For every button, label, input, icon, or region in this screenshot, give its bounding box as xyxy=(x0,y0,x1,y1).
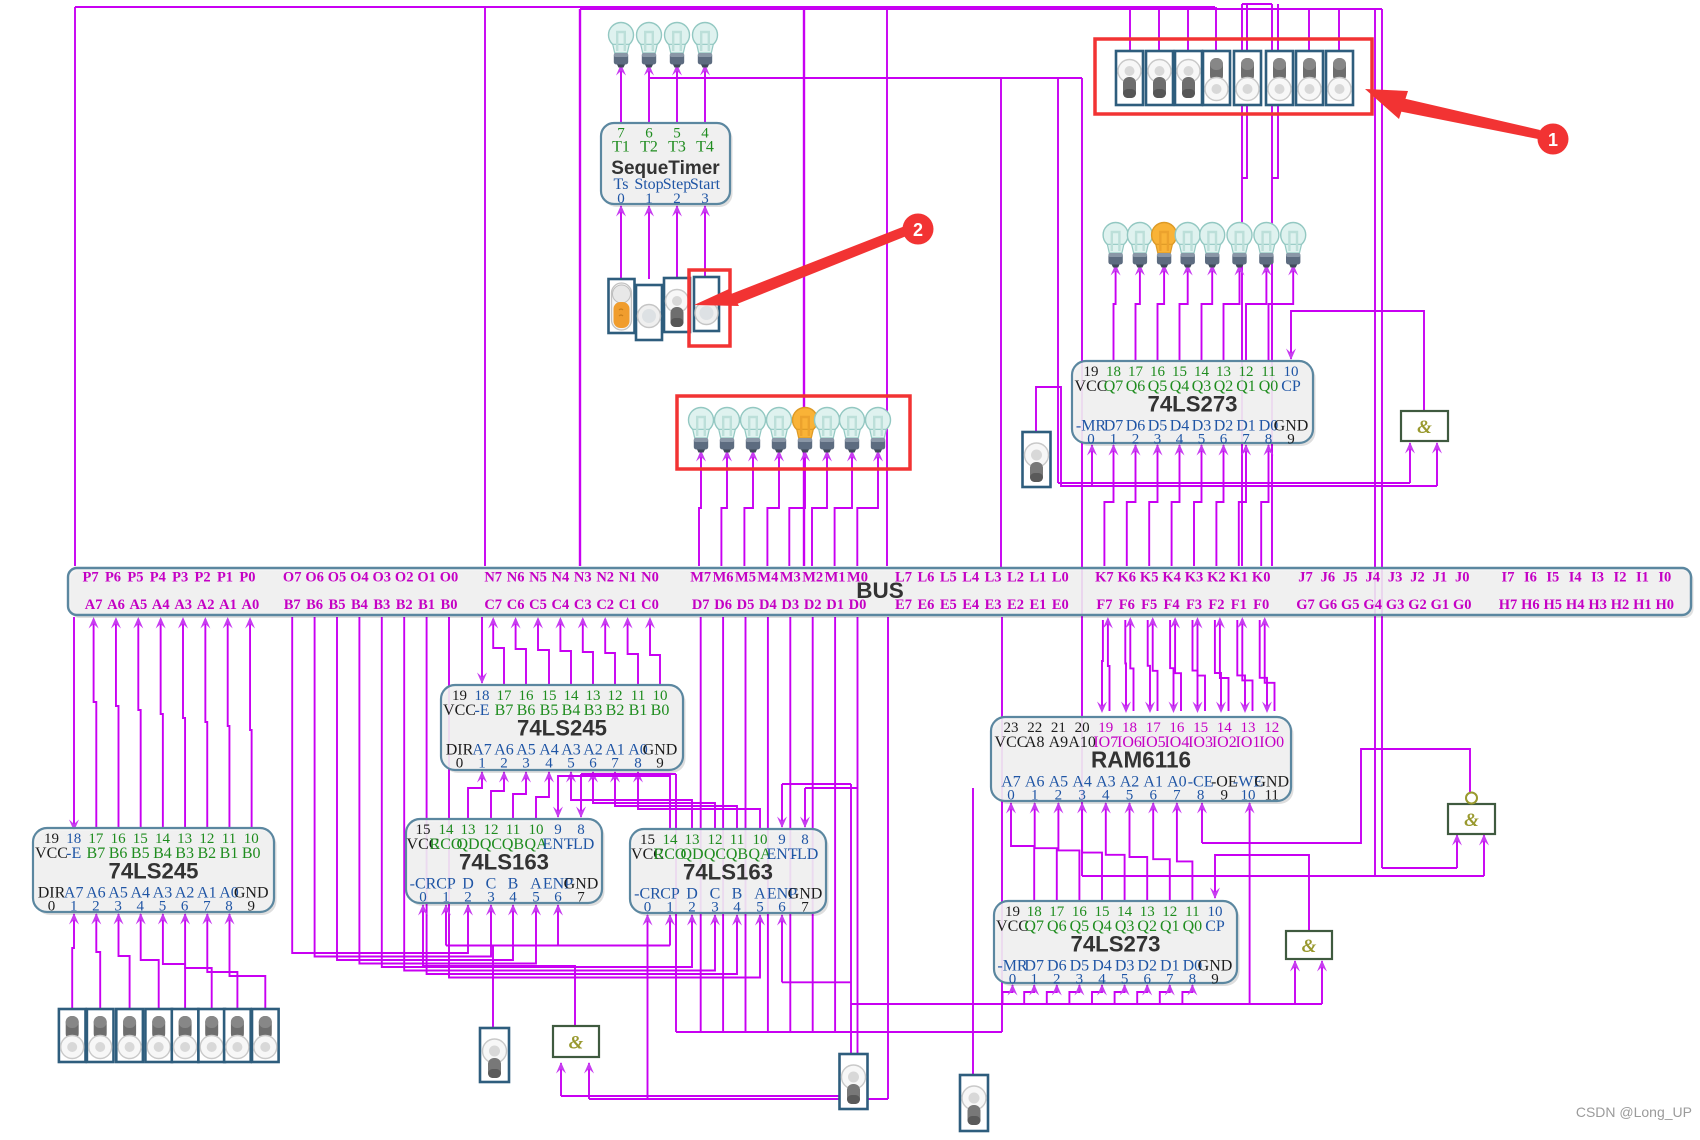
wire 74LS163b QC to 74LS245M A2 xyxy=(588,771,715,829)
wire 74LS245M B3 to BUS C3 xyxy=(578,617,593,685)
svg-text:Q6: Q6 xyxy=(1126,378,1146,395)
svg-text:5: 5 xyxy=(1126,788,1134,804)
svg-text:D2: D2 xyxy=(804,597,822,613)
toggle switch S3-7 (up) xyxy=(224,1009,251,1062)
svg-text:I4: I4 xyxy=(1569,570,1582,586)
svg-text:VCC: VCC xyxy=(443,702,476,719)
svg-text:C5: C5 xyxy=(529,597,547,613)
toggle switch S1-8 (up) xyxy=(1326,51,1353,105)
wire BUS K6 to 74LS273a D6 xyxy=(1127,444,1141,566)
svg-text:IO1: IO1 xyxy=(1236,734,1261,751)
wire stub into gate A right input xyxy=(1432,442,1442,486)
wire 74LS245L B0 to BUS A0 xyxy=(245,617,255,828)
svg-text:1: 1 xyxy=(70,899,78,915)
svg-text:F0: F0 xyxy=(1253,597,1269,613)
AND gate G4 (bottom middle) xyxy=(553,1026,599,1057)
svg-text:P3: P3 xyxy=(172,570,188,586)
svg-text:F3: F3 xyxy=(1186,597,1202,613)
svg-text:0: 0 xyxy=(1009,972,1017,988)
svg-text:H4: H4 xyxy=(1566,597,1585,613)
wire vertical x=851 ENT trunk to y=1004 xyxy=(850,784,852,1004)
svg-text:B1: B1 xyxy=(418,597,435,613)
wire switch S3-4 to 74LS245L A4 xyxy=(136,913,159,1009)
svg-text:A0: A0 xyxy=(242,597,260,613)
svg-text:P7: P7 xyxy=(83,570,99,586)
svg-text:A2: A2 xyxy=(197,597,215,613)
wire stub into 74LS163b -LD xyxy=(800,788,810,828)
svg-text:D4: D4 xyxy=(759,597,777,613)
wire horizontal trunk y=483 to AND gate A left input xyxy=(1058,482,1410,484)
indicator lamp L2-1 xyxy=(1103,223,1128,268)
svg-text:H0: H0 xyxy=(1656,597,1675,613)
svg-text:5: 5 xyxy=(159,899,167,915)
wire stub into RAM6116 -CE pin 8 xyxy=(1197,802,1207,843)
svg-text:A8: A8 xyxy=(1025,734,1045,751)
svg-text:J4: J4 xyxy=(1365,570,1380,586)
svg-text:O5: O5 xyxy=(328,570,347,586)
wire stub into 74LS163a -LD xyxy=(576,774,586,818)
svg-text:N6: N6 xyxy=(507,570,525,586)
svg-text:N4: N4 xyxy=(552,570,570,586)
wire BUS D3 down through 74LS163b to trunk y=1032 xyxy=(789,617,791,1032)
svg-text:D5: D5 xyxy=(737,597,755,613)
svg-text:4: 4 xyxy=(1098,972,1106,988)
svg-text:Q1: Q1 xyxy=(1160,918,1180,935)
wire BUS M7 to lamp L3-1 xyxy=(696,450,706,566)
indicator lamp L3-3 xyxy=(741,408,766,453)
wire stub into 74LS163b ENP xyxy=(777,914,787,982)
indicator lamp L2-8 xyxy=(1281,223,1306,268)
wire BUS M0 to lamp L3-8 xyxy=(857,450,883,566)
svg-text:RAM6116: RAM6116 xyxy=(1091,746,1191,772)
wire 74LS273b Q0 to RAM6116 A0 xyxy=(1172,802,1193,901)
wire BUS to 74LS245L -E pin 18 xyxy=(69,617,79,831)
wire RAM6116 IO5 to BUS F5 (read) xyxy=(1148,617,1158,711)
NAND gate G2 (right, with bubble) xyxy=(1448,793,1495,835)
wire BUS M3 to lamp L3-5 xyxy=(789,450,810,566)
wire 74LS163a QB to 74LS245M A5 xyxy=(513,771,531,819)
wire top rail A (y=7) xyxy=(75,6,1215,8)
wire switch S-left clock vertical xyxy=(492,946,494,1029)
annotation circle 2 xyxy=(903,214,934,245)
svg-text:B1: B1 xyxy=(629,702,648,719)
svg-text:2: 2 xyxy=(92,899,100,915)
svg-text:4: 4 xyxy=(509,890,517,906)
svg-text:B7: B7 xyxy=(87,845,106,862)
wire 74LS273a Q1 to lamp L2-7 xyxy=(1246,264,1271,361)
svg-text:0: 0 xyxy=(1007,788,1015,804)
wire 74LS273a Q3 to lamp L2-5 xyxy=(1202,264,1218,361)
wire vertical x=1375 rail-B to gate-C trunk xyxy=(1374,9,1376,877)
wire vertical x=75 rail-A to BUS xyxy=(74,7,76,566)
wire trunk to 74LS273b D5 pin 3 xyxy=(1069,984,1084,1004)
svg-text:M6: M6 xyxy=(713,570,734,586)
wire bridge stub left (x=1247) xyxy=(1242,4,1247,178)
svg-text:F4: F4 xyxy=(1164,597,1180,613)
wire vertical x=580 rail-B to BUS xyxy=(579,9,581,566)
wire switch S2-4 to SequeTimer input 3 xyxy=(700,205,710,279)
wire switch S3-6 to 74LS245L A2 xyxy=(180,913,212,1009)
svg-text:1: 1 xyxy=(478,756,486,772)
wire from push switch S-mid hook trunk y=486 xyxy=(1036,387,1437,486)
svg-text:O6: O6 xyxy=(305,570,324,586)
toggle switch S3-5 (up) xyxy=(172,1009,199,1062)
wire 74LS273b Q1 to RAM6116 A1 xyxy=(1148,802,1170,901)
wire trunk y=1099 xyxy=(589,1098,888,1100)
wire 74LS245M B2 to BUS C2 xyxy=(600,617,615,685)
toggle switch S3-4 (up) xyxy=(145,1009,172,1062)
indicator lamp L1-4 xyxy=(693,23,718,68)
wire stub into 74LS163b ENT xyxy=(777,784,787,828)
svg-text:0: 0 xyxy=(644,900,652,916)
svg-text:F6: F6 xyxy=(1119,597,1135,613)
svg-text:6: 6 xyxy=(1143,972,1151,988)
wire rail-B drop to switch S1-8 top xyxy=(1338,9,1340,51)
svg-text:2: 2 xyxy=(913,220,923,240)
svg-text:T1: T1 xyxy=(612,139,630,156)
svg-text:9: 9 xyxy=(1287,432,1295,448)
svg-text:E3: E3 xyxy=(985,597,1002,613)
svg-text:G5: G5 xyxy=(1341,597,1360,613)
wire stub into 74LS163b CP xyxy=(665,914,675,946)
wire vertical x=888 BUS to trunk y=1099 xyxy=(887,617,889,1099)
svg-text:M1: M1 xyxy=(825,570,846,586)
svg-text:J3: J3 xyxy=(1388,570,1403,586)
svg-text:E4: E4 xyxy=(962,597,979,613)
svg-text:H2: H2 xyxy=(1611,597,1630,613)
wire stub into gate C left input xyxy=(1452,834,1462,868)
indicator lamp L2-2 xyxy=(1127,223,1152,268)
svg-text:O1: O1 xyxy=(417,570,436,586)
wire stub into gate C right input xyxy=(1479,834,1489,876)
svg-text:0: 0 xyxy=(617,191,625,207)
wire rail-B drop to switch S1-7 top xyxy=(1308,9,1310,51)
wire horizontal y=788 to 74LS163b -LD xyxy=(805,787,857,789)
wire rail-A drop to switch S1-4 top xyxy=(1215,7,1217,51)
svg-text:8: 8 xyxy=(225,899,233,915)
wire gate B output to 74LS273b CP pin 10 xyxy=(1210,855,1309,931)
svg-text:6: 6 xyxy=(181,899,189,915)
svg-text:6: 6 xyxy=(1149,788,1157,804)
svg-text:E5: E5 xyxy=(940,597,957,613)
svg-text:B7: B7 xyxy=(495,702,514,719)
svg-text:B3: B3 xyxy=(373,597,390,613)
svg-text:N0: N0 xyxy=(641,570,659,586)
wire BUS K7 to 74LS273a D7 xyxy=(1104,444,1118,566)
svg-text:1: 1 xyxy=(666,900,674,916)
timer unit U1 SequeTimer xyxy=(601,123,733,207)
svg-text:IO0: IO0 xyxy=(1259,734,1284,751)
svg-text:B5: B5 xyxy=(329,597,346,613)
svg-text:B4: B4 xyxy=(351,597,368,613)
wire stub into gate B right input xyxy=(1317,960,1327,1004)
svg-text:1: 1 xyxy=(1548,130,1558,150)
svg-text:K7: K7 xyxy=(1095,570,1114,586)
svg-text:I2: I2 xyxy=(1614,570,1627,586)
svg-text:I7: I7 xyxy=(1502,570,1515,586)
svg-text:L0: L0 xyxy=(1052,570,1069,586)
svg-text:H7: H7 xyxy=(1499,597,1518,613)
wire BUS D4 down through 74LS163b to trunk y=1032 xyxy=(767,617,769,1032)
wire bridge stub right (x=1278) xyxy=(1272,4,1278,178)
indicator lamp L2-4 xyxy=(1175,223,1200,268)
wire SequeTimer T2 output to lamp L1-2 xyxy=(644,64,654,123)
wire vertical x=804 rail-B to BUS xyxy=(803,9,805,566)
wire switch S3-2 to 74LS245L A6 xyxy=(91,913,101,1009)
wire vertical x=1002 BUS through RAM/273b to trunk xyxy=(1001,617,1003,1032)
svg-text:G7: G7 xyxy=(1296,597,1315,613)
wire horizontal y=774 to 74LS163a -LD xyxy=(581,773,676,775)
wire BUS B6 to 74LS163a C input xyxy=(315,617,496,957)
wire 74LS273a Q4 to lamp L2-4 xyxy=(1180,264,1193,361)
svg-text:T2: T2 xyxy=(640,139,658,156)
svg-text:5: 5 xyxy=(567,756,575,772)
svg-text:K4: K4 xyxy=(1162,570,1181,586)
wire 74LS245L B3 to BUS A3 xyxy=(178,617,188,828)
svg-text:C1: C1 xyxy=(619,597,637,613)
wire switch S2-2 to SequeTimer input 1 xyxy=(644,205,654,279)
svg-text:-LD: -LD xyxy=(792,846,819,863)
svg-text:3: 3 xyxy=(711,900,719,916)
wire BUS K3 to 74LS273a D3 xyxy=(1194,444,1207,566)
push button S2-2 xyxy=(636,285,662,340)
svg-text:7: 7 xyxy=(801,900,809,916)
wire stub into 74LS163a CP xyxy=(441,904,451,946)
svg-text:M5: M5 xyxy=(735,570,756,586)
svg-text:M7: M7 xyxy=(690,570,711,586)
toggle switch S1-6 (up) xyxy=(1266,51,1293,105)
svg-text:C7: C7 xyxy=(484,597,502,613)
wire 74LS245M B4 to BUS C4 xyxy=(555,617,571,685)
svg-text:B0: B0 xyxy=(651,702,670,719)
svg-text:A1: A1 xyxy=(219,597,237,613)
BUS backbone xyxy=(68,568,1694,618)
wire BUS B1 to 74LS163b B input xyxy=(427,617,742,974)
wire vertical x=973 to switch S-bot2 xyxy=(972,788,974,1075)
svg-text:74LS273: 74LS273 xyxy=(1148,391,1238,416)
wire BUS D1 down through 74LS163b to trunk y=1032 xyxy=(834,617,836,1032)
svg-text:10: 10 xyxy=(1241,788,1256,804)
svg-text:9: 9 xyxy=(1221,788,1229,804)
svg-text:3: 3 xyxy=(701,191,709,207)
svg-text:O4: O4 xyxy=(350,570,369,586)
svg-text:-E: -E xyxy=(474,702,489,719)
wire stub into 74LS163a -CR xyxy=(418,904,428,966)
wire 74LS163b QB to 74LS245M A1 xyxy=(610,771,737,829)
wire 74LS245M B0 to BUS C0 xyxy=(645,617,660,685)
svg-text:7: 7 xyxy=(1173,788,1181,804)
svg-text:C6: C6 xyxy=(507,597,525,613)
svg-text:Q1: Q1 xyxy=(1236,378,1256,395)
wire clock trunk y=945.5 xyxy=(446,945,670,947)
wire gate D output trunk y=966 xyxy=(423,966,575,1026)
wire switch S3-1 to 74LS245L A7 xyxy=(69,913,79,1009)
annotation arrow 2 xyxy=(694,226,909,306)
wire top bridge (y=4) xyxy=(1242,3,1272,5)
wire BUS F2 to RAM6116 IO2 (write) xyxy=(1215,620,1226,713)
wire trunk to 74LS273b D7 pin 1 xyxy=(1024,984,1039,1004)
wire vertical x=1058 H78 to gate-A trunk xyxy=(1057,78,1059,483)
wire BUS M5 to lamp L3-3 xyxy=(744,450,758,566)
svg-text:BUS: BUS xyxy=(856,578,904,603)
IC U2 74LS245 (left) xyxy=(33,828,277,915)
svg-text:1: 1 xyxy=(1030,972,1038,988)
svg-text:I5: I5 xyxy=(1546,570,1559,586)
svg-text:E1: E1 xyxy=(1029,597,1046,613)
wire 74LS273a Q2 to lamp L2-6 xyxy=(1224,264,1245,361)
wire SequeTimer T4 output to lamp L1-4 xyxy=(700,64,710,123)
wire rail-A drop to switch S1-3 top xyxy=(1187,7,1189,51)
wire switch S3-5 to 74LS245L A3 xyxy=(158,913,185,1009)
wire BUS F1 to RAM6116 IO1 (write) xyxy=(1237,620,1250,713)
push button S2-4 xyxy=(694,277,719,331)
svg-text:B7: B7 xyxy=(284,597,301,613)
svg-text:K6: K6 xyxy=(1118,570,1137,586)
svg-text:F5: F5 xyxy=(1141,597,1157,613)
svg-text:&: & xyxy=(569,1033,584,1054)
wire trunk to 74LS273b -MR pin 0 xyxy=(1003,984,1018,1004)
svg-text:7: 7 xyxy=(577,890,585,906)
svg-text:J5: J5 xyxy=(1343,570,1358,586)
wire 74LS273b Q7 to RAM6116 A7 xyxy=(1006,802,1034,901)
svg-text:N7: N7 xyxy=(484,570,502,586)
svg-text:B2: B2 xyxy=(197,845,216,862)
svg-text:5: 5 xyxy=(1121,972,1129,988)
toggle switch S3-3 (up) xyxy=(116,1009,143,1062)
svg-text:B6: B6 xyxy=(306,597,323,613)
svg-text:8: 8 xyxy=(1265,432,1273,448)
svg-text:2: 2 xyxy=(500,756,508,772)
wire trunk y=1004 to RAM6116 -WE pin 10 xyxy=(1245,802,1255,1004)
annotation arrow 1 xyxy=(1365,89,1540,139)
indicator lamp L3-5 xyxy=(793,408,818,453)
svg-text:Q7: Q7 xyxy=(1024,918,1044,935)
svg-text:G3: G3 xyxy=(1386,597,1405,613)
svg-text:11: 11 xyxy=(1264,788,1278,804)
wire RAM6116 IO2 to BUS F2 (read) xyxy=(1215,617,1229,711)
wire RAM6116 IO0 to BUS F0 (read) xyxy=(1260,617,1275,711)
wire 74LS245M B1 to BUS C1 xyxy=(623,617,638,685)
wire 74LS163b RCO to 74LS163a ENT xyxy=(553,776,670,829)
wire 74LS273a Q0 to lamp L2-8 xyxy=(1269,264,1299,361)
svg-text:1: 1 xyxy=(1110,432,1118,448)
svg-text:-E: -E xyxy=(66,845,81,862)
wire trunk to 74LS273b D6 pin 2 xyxy=(1047,984,1062,1004)
wire stub into gate D right input xyxy=(584,1062,594,1099)
svg-text:9: 9 xyxy=(1211,972,1219,988)
wire 74LS245M B5 to BUS C5 xyxy=(533,617,549,685)
svg-text:C2: C2 xyxy=(596,597,614,613)
wire switch S3-3 to 74LS245L A5 xyxy=(114,913,130,1009)
svg-text:N1: N1 xyxy=(619,570,637,586)
svg-text:C0: C0 xyxy=(641,597,659,613)
toggle switch S3-1 (up) xyxy=(59,1009,86,1062)
svg-text:K0: K0 xyxy=(1252,570,1271,586)
wire BUS K1 to 74LS273a D1 xyxy=(1239,444,1251,566)
wire stub into gate B left input xyxy=(1290,960,1300,1004)
svg-text:I3: I3 xyxy=(1591,570,1604,586)
IC U5 74LS163 (right counter) xyxy=(630,829,829,916)
indicator lamp L1-1 xyxy=(609,23,634,68)
svg-text:A3: A3 xyxy=(174,597,192,613)
svg-text:7: 7 xyxy=(1166,972,1174,988)
svg-text:VCC: VCC xyxy=(35,845,68,862)
push switch S-left (clock) xyxy=(480,1028,509,1082)
svg-text:5: 5 xyxy=(756,900,764,916)
svg-text:I1: I1 xyxy=(1636,570,1649,586)
svg-text:74LS163: 74LS163 xyxy=(459,849,549,874)
wire BUS M1 to lamp L3-7 xyxy=(835,450,857,566)
wire trunk y=1099 to 74LS163b -CR xyxy=(643,914,653,1099)
svg-text:74LS245: 74LS245 xyxy=(109,858,199,883)
svg-text:Q0: Q0 xyxy=(1183,918,1203,935)
svg-text:8: 8 xyxy=(1189,972,1197,988)
push switch S-mid (reset) xyxy=(1023,432,1051,487)
wire vertical x=1001 from H78 to BUS xyxy=(1000,78,1002,568)
wire horizontal y=784 to 74LS163b ENT xyxy=(782,783,851,785)
svg-text:B0: B0 xyxy=(242,845,261,862)
svg-text:F7: F7 xyxy=(1096,597,1112,613)
svg-text:T4: T4 xyxy=(696,139,714,156)
toggle switch S1-7 (up) xyxy=(1296,51,1323,105)
wire BUS B4 to 74LS163a A input xyxy=(359,617,541,964)
toggle switch S2-3 (down) xyxy=(664,278,690,332)
wire trunk to 74LS273b D1 pin 7 xyxy=(1160,984,1175,1004)
AND gate G3 (lower right) xyxy=(1286,931,1332,959)
svg-text:4: 4 xyxy=(545,756,553,772)
svg-text:6: 6 xyxy=(778,900,786,916)
svg-text:L5: L5 xyxy=(940,570,957,586)
svg-text:L3: L3 xyxy=(985,570,1002,586)
wire BUS M2 to lamp L3-6 xyxy=(812,450,832,566)
wire BUS D0 vertical to trunk y=1096 xyxy=(857,617,859,1096)
svg-text:L6: L6 xyxy=(917,570,934,586)
svg-text:2: 2 xyxy=(1053,972,1061,988)
svg-text:9: 9 xyxy=(247,899,255,915)
svg-text:E2: E2 xyxy=(1007,597,1024,613)
wire RAM6116 IO1 to BUS F1 (read) xyxy=(1237,617,1252,711)
wire BUS to 74LS245M -E pin 18 xyxy=(477,617,487,684)
wire vertical x=1272 through switch S1-6 and 74LS273a to BUS xyxy=(1271,4,1273,566)
svg-text:2: 2 xyxy=(1132,432,1140,448)
wire 74LS163b QD to 74LS245M A3 xyxy=(566,771,692,829)
wire switch S2-3 to SequeTimer input 2 xyxy=(672,205,682,279)
wire BUS D6 down through 74LS163b to trunk y=1032 xyxy=(722,617,724,1032)
wire RAM6116 IO4 to BUS F4 (read) xyxy=(1170,617,1181,711)
svg-text:5: 5 xyxy=(1198,432,1206,448)
wire gate A output to 74LS273a CP pin 10 xyxy=(1286,311,1424,411)
wire BUS D5 down through 74LS163b to trunk y=1032 xyxy=(745,617,747,1032)
IC U7 74LS273 (lower) xyxy=(994,901,1240,988)
annotation circle 1 xyxy=(1538,124,1569,155)
annotation red box around lamp row L3 xyxy=(677,396,910,469)
wire BUS F4 to RAM6116 IO4 (write) xyxy=(1169,620,1179,713)
wire BUS B7 to 74LS163a D input xyxy=(292,617,473,953)
wire BUS K5 to 74LS273a D5 xyxy=(1149,444,1162,566)
toggle switch S1-4 (up) xyxy=(1203,51,1230,105)
svg-text:2: 2 xyxy=(1055,788,1063,804)
wire vertical x=676 through 74LS163b to trunk xyxy=(675,774,677,1032)
wire BUS K0 to 74LS273a D0 xyxy=(1261,444,1273,566)
svg-text:CSDN @Long_UP: CSDN @Long_UP xyxy=(1576,1104,1692,1120)
wire 74LS273b Q6 to RAM6116 A6 xyxy=(1030,802,1057,901)
svg-text:J0: J0 xyxy=(1455,570,1470,586)
svg-text:0: 0 xyxy=(456,756,464,772)
wire 74LS273b Q2 to RAM6116 A2 xyxy=(1125,802,1148,901)
wire 74LS245L B7 to BUS A7 xyxy=(89,617,99,828)
svg-text:6: 6 xyxy=(554,890,562,906)
wire rail-B drop to switch S1-5 top xyxy=(1246,9,1248,51)
